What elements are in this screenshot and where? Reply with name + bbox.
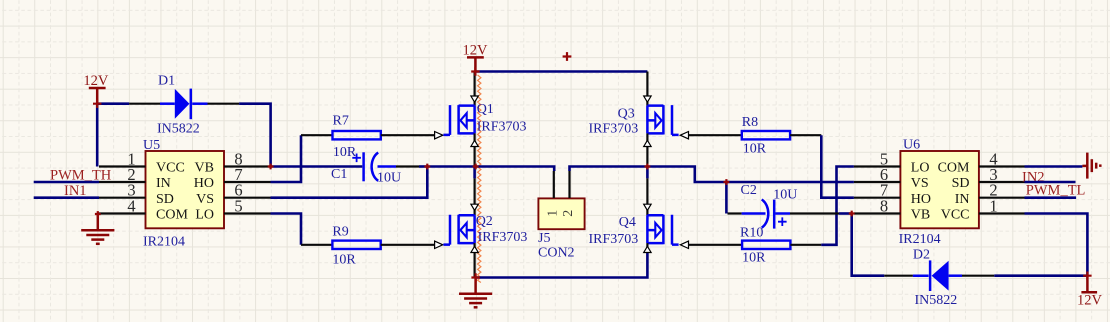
svg-text:Q3: Q3 (618, 107, 635, 122)
wire net IN2 from U6 pin 3 (SD) (1025, 181, 1076, 184)
U6 left pins 5-8 (854, 167, 901, 214)
svg-text:12V: 12V (463, 42, 489, 58)
svg-text:12V: 12V (83, 73, 109, 89)
svg-text:10U: 10U (377, 171, 401, 186)
U6 pin names (911, 161, 970, 223)
svg-text:HO: HO (911, 192, 931, 207)
no-ERC marker cross (563, 52, 572, 61)
power port 12V (top middle) (463, 42, 489, 71)
U5 pin numbers 8-5 (234, 150, 242, 216)
U5 right pins 8-5 (224, 167, 271, 214)
resistor R10 10R (740, 225, 790, 265)
Q4 gate input arrow (680, 241, 688, 248)
svg-text:10R: 10R (742, 251, 766, 266)
svg-text:LO: LO (911, 161, 930, 176)
svg-text:IN5822: IN5822 (915, 293, 958, 308)
wire right switch node to U6 VS branch (647, 167, 854, 183)
U5 pin numbers 1-4 (127, 150, 135, 216)
wire net IN1 to U5 pin 3 (34, 196, 99, 199)
transistor Q4 IRF3703 (589, 215, 679, 247)
capacitor C2 10U (bootstrap) (741, 183, 798, 229)
transistor Q4 drain pin (644, 167, 651, 216)
svg-text:Q1: Q1 (477, 102, 494, 117)
svg-text:VCC: VCC (156, 161, 185, 176)
power port 12V (top left) (83, 73, 109, 104)
wire VS branch down to C2 (725, 182, 728, 214)
wire D1 cathode to U5 pin 8 (VB) (239, 104, 271, 167)
svg-text:IRF3703: IRF3703 (477, 119, 527, 134)
svg-text:Q2: Q2 (476, 214, 493, 229)
svg-text:SD: SD (952, 176, 970, 191)
transistor Q1 source pin (471, 133, 478, 166)
svg-text:IRF3703: IRF3703 (589, 232, 639, 247)
connector J5 pin 1 (553, 171, 555, 198)
resistor R10 right pin (790, 244, 821, 246)
wire U6 pin 4 (COM) to ground (1025, 165, 1083, 168)
diode D2 pin 2 (cathode) (884, 275, 913, 277)
svg-text:12V: 12V (1077, 293, 1103, 309)
wire D2 anode to 12V (994, 274, 1087, 277)
svg-text:U5: U5 (143, 138, 160, 153)
U6 pin numbers 4-1 (989, 150, 997, 216)
svg-text:LO: LO (195, 208, 214, 223)
resistor R8 right pin (790, 134, 821, 136)
diode D2 pin 1 (anode) (962, 275, 994, 277)
resistor R9 left pin (301, 244, 332, 246)
svg-text:IRF3703: IRF3703 (589, 121, 639, 136)
svg-text:SD: SD (156, 192, 174, 207)
svg-text:COM: COM (938, 161, 970, 176)
svg-text:10U: 10U (773, 187, 797, 202)
wire junction down to U5 pin 6 (VS) (271, 167, 428, 198)
Q1 gate input arrow (435, 132, 443, 139)
svg-text:IRF3703: IRF3703 (478, 230, 528, 245)
svg-text:10R: 10R (332, 253, 356, 268)
Q2 gate input arrow (435, 241, 443, 248)
svg-text:10R: 10R (333, 145, 357, 160)
svg-text:VB: VB (911, 208, 930, 223)
svg-text:IR2104: IR2104 (143, 235, 185, 250)
svg-text:C2: C2 (741, 183, 757, 198)
connector J5 pin 2 (568, 171, 570, 198)
svg-text:C1: C1 (331, 167, 347, 182)
transistor Q3 source pin (644, 133, 651, 166)
resistor R7 right pin to Q1 gate (381, 134, 435, 136)
svg-text:PWM_TL: PWM_TL (1026, 183, 1086, 199)
transistor Q1 drain pin (471, 72, 478, 106)
junction dots (93, 100, 101, 108)
op-amp U6 IR2104 body (899, 138, 979, 248)
resistor R9 10R (332, 224, 380, 267)
svg-text:10R: 10R (743, 141, 767, 156)
resistor R9 right pin to Q2 gate (381, 244, 435, 246)
diode D2 IN5822 (913, 247, 962, 308)
wire C2 right plate to U6 VB (776, 212, 852, 215)
svg-text:CON2: CON2 (538, 246, 575, 261)
diode D1 pin 1 (anode) (129, 103, 160, 105)
svg-text:IN: IN (156, 176, 171, 191)
svg-text:VB: VB (195, 161, 214, 176)
transistor Q4 source pin (644, 243, 651, 252)
ground right (COM) (1082, 153, 1100, 179)
diode D1 pin 2 (cathode) (208, 103, 240, 105)
svg-text:IN: IN (955, 192, 970, 207)
resistor R10 left pin (689, 244, 743, 246)
svg-text:IN5822: IN5822 (157, 122, 200, 137)
svg-text:J5: J5 (538, 231, 550, 246)
capacitor C1 10U (bootstrap) (331, 152, 401, 185)
wire U5 pin 7 (HO) up to R7 (271, 135, 302, 182)
svg-text:R7: R7 (333, 113, 349, 128)
transistor Q2 IRF3703 (443, 214, 527, 245)
svg-text:1: 1 (989, 197, 997, 216)
capacitor C2 left pin (728, 212, 742, 214)
svg-text:COM: COM (156, 208, 188, 223)
svg-text:VS: VS (911, 176, 929, 191)
transistor Q2 drain pin (471, 167, 478, 216)
wire R10 to U6 pin 5 (LO) (821, 167, 854, 245)
wire R8 to U6 pin 7 (HO) (821, 135, 854, 198)
svg-text:2: 2 (561, 210, 576, 217)
wire net PWM_TH to U5 pin 2 (34, 181, 99, 184)
wire U6 pin 1 (VCC) to 12V (1025, 214, 1088, 276)
resistor R8 left pin (689, 134, 742, 136)
svg-text:1: 1 (546, 210, 561, 217)
svg-text:D1: D1 (158, 74, 175, 89)
wire 12V rail to Q3 drain (475, 70, 647, 73)
svg-text:U6: U6 (903, 138, 920, 153)
wire net PWM_TL from U6 pin 2 (IN) (1025, 196, 1077, 199)
transistor Q1 IRF3703 (443, 102, 526, 135)
resistor R7 10R (333, 113, 381, 160)
wire C1 right plate to switch node junction (378, 165, 428, 168)
wire U5 VB to C1 plus plate (271, 165, 363, 168)
wire 12V down to U5 pin 1 (VCC) (96, 104, 99, 167)
svg-text:VCC: VCC (941, 208, 970, 223)
svg-text:D2: D2 (913, 247, 930, 262)
op-amp U5 IR2104 body (143, 138, 224, 250)
svg-text:R9: R9 (332, 224, 348, 239)
svg-text:VS: VS (196, 192, 214, 207)
wire bottom rail to Q4 source (476, 252, 648, 278)
transistor Q3 IRF3703 (589, 105, 679, 136)
wire right switch node to J5 pin 2 (570, 167, 648, 172)
ERC squiggle along Q1/Q2 column (478, 75, 481, 283)
resistor R8 10R (742, 115, 790, 156)
U6 pin numbers 5-8 (880, 150, 888, 216)
transistor Q3 drain pin (644, 72, 651, 106)
svg-text:5: 5 (234, 197, 242, 216)
Q3 gate input arrow (680, 132, 688, 139)
svg-text:R8: R8 (742, 115, 758, 130)
svg-text:Q4: Q4 (619, 215, 636, 230)
diode D1 IN5822 (157, 74, 208, 137)
svg-text:HO: HO (194, 176, 214, 191)
wire 12V to D1 anode (97, 102, 129, 105)
U6 right pins 4-1 (979, 167, 1025, 214)
U5 left pins 1-4 (99, 167, 146, 214)
power port 12V (bottom right) (1077, 276, 1103, 309)
resistor R7 left pin (301, 134, 333, 136)
svg-text:R10: R10 (740, 225, 763, 240)
connector J5 CON2 (538, 198, 585, 260)
svg-text:4: 4 (127, 197, 135, 216)
svg-text:8: 8 (880, 197, 888, 216)
wire switch node to J5 pin 1 (427, 167, 554, 172)
U5 pin names (156, 161, 214, 223)
transistor Q2 source pin (471, 243, 478, 277)
svg-text:IR2104: IR2104 (899, 232, 941, 247)
ground under U5 pin 4 (81, 214, 114, 244)
ground below Q2 (459, 278, 492, 308)
wire U5 pin 5 (LO) down to R9 (271, 214, 302, 245)
wire VB junction down to D2 cathode (852, 214, 885, 276)
